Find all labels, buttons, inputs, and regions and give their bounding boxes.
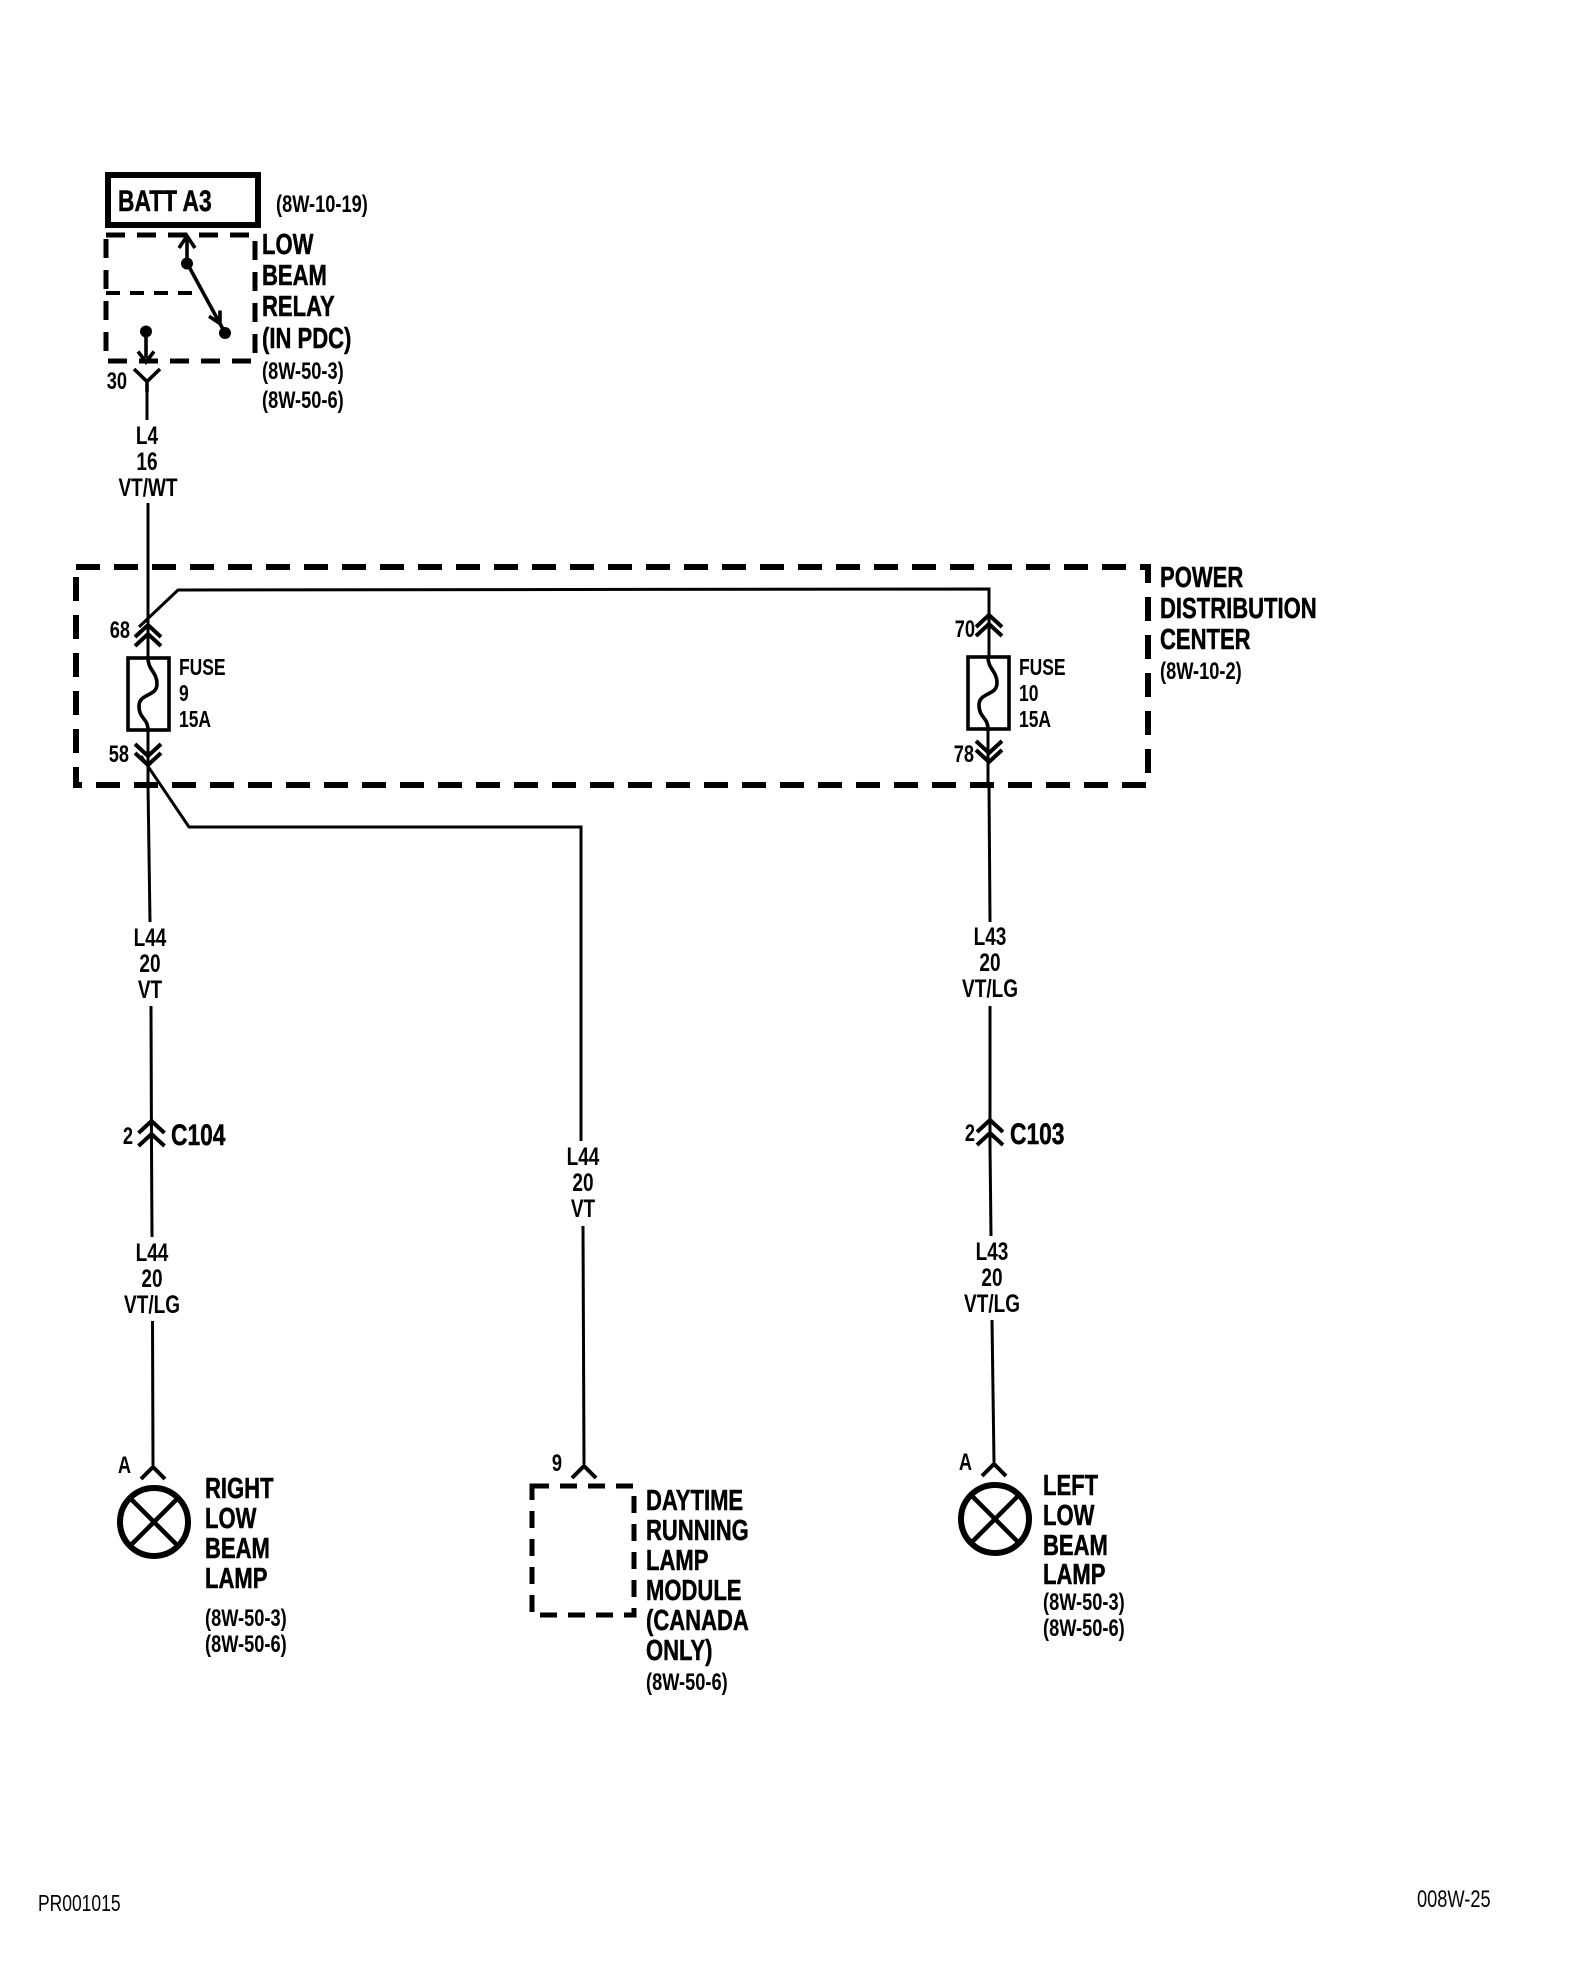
svg-text:L43: L43 (974, 922, 1007, 950)
wire chevron 70 into fuse F10 (988, 628, 991, 657)
connector name C103 (1010, 1117, 1064, 1151)
svg-text:9: 9 (179, 682, 189, 707)
relay pin 30 contact dot (140, 326, 152, 338)
relay coil-side arrow to battery (pin 87 arrow up) (179, 236, 195, 263)
pin number 58 (109, 741, 129, 768)
svg-text:58: 58 (109, 741, 129, 768)
svg-text:RUNNING: RUNNING (646, 1515, 749, 1547)
component label DAYTIME RUNNING LAMP MODULE (CANADA ONLY) (646, 1485, 749, 1695)
branch wire from pin 58 to daytime running lamp module feed (141, 756, 581, 1141)
connector chevron at lamp pin A (141, 1467, 165, 1479)
pin number 9 (552, 1450, 562, 1477)
reference label (8W-10-19) (276, 191, 368, 218)
svg-text:LAMP: LAMP (1043, 1559, 1105, 1591)
svg-text:20: 20 (981, 1263, 1002, 1291)
svg-text:VT/LG: VT/LG (124, 1290, 180, 1318)
svg-text:L44: L44 (136, 1238, 169, 1266)
svg-text:68: 68 (110, 617, 130, 644)
svg-text:LOW: LOW (1043, 1500, 1095, 1532)
wire pin 58 down to right low beam lamp branch (148, 785, 150, 922)
svg-text:15A: 15A (179, 708, 211, 733)
connector C104 chevrons (139, 1121, 165, 1146)
svg-text:DISTRIBUTION: DISTRIBUTION (1160, 593, 1317, 625)
relay K1 LOW BEAM RELAY dashed box (106, 235, 255, 361)
svg-text:(8W-50-6): (8W-50-6) (262, 387, 344, 414)
wire continuing into PDC (147, 503, 150, 658)
svg-text:(8W-10-2): (8W-10-2) (1160, 658, 1242, 685)
wire to right low beam lamp pin A (151, 1321, 155, 1465)
svg-text:RELAY: RELAY (262, 291, 335, 323)
svg-text:78: 78 (954, 741, 974, 768)
pin number 68 (110, 617, 130, 644)
component label LEFT LOW BEAM LAMP (1043, 1470, 1125, 1641)
lamp LEFT LOW BEAM LAMP symbol (961, 1485, 1029, 1553)
connector name C104 (171, 1118, 226, 1152)
wire label L43 20 VT/LG (right branch) (962, 922, 1018, 1002)
wire label L43 20 VT/LG (right branch lower) (964, 1237, 1020, 1317)
svg-text:PR001015: PR001015 (38, 1892, 121, 1917)
svg-text:L4: L4 (136, 421, 159, 449)
svg-text:(8W-50-6): (8W-50-6) (646, 1669, 728, 1696)
svg-text:LEFT: LEFT (1043, 1470, 1098, 1502)
wire C104 down (150, 1147, 154, 1237)
svg-text:16: 16 (136, 447, 157, 475)
wire label L44 20 VT (middle branch) (567, 1142, 600, 1222)
svg-text:DAYTIME: DAYTIME (646, 1485, 743, 1517)
svg-text:A: A (959, 1449, 972, 1476)
wire right branch to connector C103 (989, 1006, 992, 1148)
lamp RIGHT LOW BEAM LAMP symbol (120, 1488, 188, 1556)
svg-text:70: 70 (955, 616, 975, 643)
svg-text:2: 2 (123, 1123, 133, 1150)
svg-text:(8W-50-3): (8W-50-3) (1043, 1589, 1125, 1616)
svg-text:FUSE: FUSE (1019, 656, 1066, 681)
svg-text:(IN PDC): (IN PDC) (262, 323, 351, 355)
svg-text:(8W-50-3): (8W-50-3) (262, 358, 344, 385)
svg-text:L44: L44 (134, 923, 167, 951)
svg-text:VT/LG: VT/LG (962, 974, 1018, 1002)
relay pin 30 lead with male pin arrow down (138, 331, 154, 362)
svg-text:C103: C103 (1010, 1117, 1064, 1151)
footer sheet code PR001015 (38, 1892, 121, 1917)
relay NO contact dot (219, 327, 231, 339)
wire pin 78 down to left low beam lamp branch (989, 785, 990, 922)
wire left branch to connector C104 (150, 1006, 154, 1148)
svg-text:A: A (118, 1452, 131, 1479)
svg-text:30: 30 (107, 368, 127, 395)
connector C103 chevrons (977, 1120, 1003, 1145)
svg-text:POWER: POWER (1160, 562, 1244, 594)
fuse F10 body (968, 657, 1009, 729)
svg-text:LOW: LOW (205, 1503, 257, 1535)
female connector Y at pin 30 (134, 369, 160, 392)
footer sheet code 008W-25 (1417, 1886, 1491, 1913)
svg-text:(8W-50-6): (8W-50-6) (205, 1631, 287, 1658)
connector chevrons at pin 58 (135, 744, 161, 765)
svg-text:BEAM: BEAM (1043, 1530, 1108, 1562)
svg-text:008W-25: 008W-25 (1417, 1886, 1491, 1913)
svg-text:LOW: LOW (262, 229, 314, 261)
wire label L44 20 VT/LG (left branch lower) (124, 1238, 180, 1318)
relay internal divider dashed line (106, 291, 200, 295)
svg-text:20: 20 (141, 1264, 162, 1292)
svg-text:BEAM: BEAM (205, 1533, 270, 1565)
connector chevron at module pin 9 (572, 1466, 596, 1478)
fuse F9 body (128, 658, 169, 730)
wire from relay pin 30 down (146, 392, 149, 420)
wire to left low beam lamp pin A (992, 1320, 994, 1462)
svg-text:L44: L44 (567, 1142, 600, 1170)
svg-text:20: 20 (572, 1168, 593, 1196)
component label POWER DISTRIBUTION CENTER (1160, 562, 1317, 684)
svg-text:LAMP: LAMP (205, 1563, 267, 1595)
component label LOW BEAM RELAY (IN PDC) (262, 229, 351, 413)
svg-text:(8W-10-19): (8W-10-19) (276, 191, 368, 218)
svg-text:CENTER: CENTER (1160, 624, 1251, 656)
connector chevrons at pin 78 (976, 741, 1002, 762)
pin number 78 (954, 741, 974, 768)
connector chevron at lamp pin A (left) (982, 1464, 1006, 1476)
bus wire from pin 68 node to fuse 10 branch (139, 589, 989, 657)
fuse F10 label FUSE 10 15A (1019, 656, 1066, 733)
connector chevrons at pin 68 (135, 625, 161, 646)
wire fuse F9 to pin 58 (147, 730, 150, 785)
svg-text:ONLY): ONLY) (646, 1635, 713, 1667)
wire label L44 20 VT (left branch) (134, 923, 167, 1003)
pin number 2 at C104 (123, 1123, 133, 1150)
svg-text:VT: VT (571, 1194, 596, 1222)
svg-text:2: 2 (965, 1120, 975, 1147)
DAYTIME RUNNING LAMP MODULE dashed box (532, 1486, 634, 1615)
svg-text:15A: 15A (1019, 708, 1051, 733)
pin number 30 (107, 368, 127, 395)
svg-text:L43: L43 (976, 1237, 1009, 1265)
connector chevrons at pin 70 (976, 615, 1002, 636)
wire label L4 16 VT/WT (118, 421, 177, 501)
battery feed box BATT A3 (108, 175, 258, 225)
svg-text:RIGHT: RIGHT (205, 1473, 274, 1505)
POWER DISTRIBUTION CENTER dashed box (76, 567, 1148, 785)
fuse F9 label FUSE 9 15A (179, 656, 226, 733)
svg-text:VT/LG: VT/LG (964, 1289, 1020, 1317)
pin letter A (left lamp) (959, 1449, 972, 1476)
svg-text:(8W-50-6): (8W-50-6) (1043, 1615, 1125, 1642)
wire fuse F10 to pin 78 (987, 729, 990, 785)
wire C103 down (990, 1146, 991, 1236)
svg-text:VT: VT (138, 975, 163, 1003)
svg-text:(8W-50-3): (8W-50-3) (205, 1605, 287, 1632)
svg-text:LAMP: LAMP (646, 1545, 708, 1577)
svg-text:9: 9 (552, 1450, 562, 1477)
pin number 70 (955, 616, 975, 643)
svg-text:10: 10 (1019, 682, 1038, 707)
relay switch blade (diagonal with arrowhead) (187, 263, 224, 331)
svg-text:FUSE: FUSE (179, 656, 226, 681)
pin number 2 at C103 (965, 1120, 975, 1147)
relay common contact dot (181, 258, 193, 270)
svg-text:(CANADA: (CANADA (646, 1605, 749, 1637)
svg-text:MODULE: MODULE (646, 1575, 741, 1607)
pin letter A (right lamp) (118, 1452, 131, 1479)
component label RIGHT LOW BEAM LAMP (205, 1473, 287, 1657)
svg-text:20: 20 (979, 948, 1000, 976)
svg-text:20: 20 (139, 949, 160, 977)
svg-text:BEAM: BEAM (262, 260, 327, 292)
wire middle branch to module pin 9 (583, 1226, 584, 1464)
svg-text:C104: C104 (171, 1118, 226, 1152)
svg-text:BATT A3: BATT A3 (118, 184, 212, 218)
svg-text:VT/WT: VT/WT (118, 473, 177, 501)
